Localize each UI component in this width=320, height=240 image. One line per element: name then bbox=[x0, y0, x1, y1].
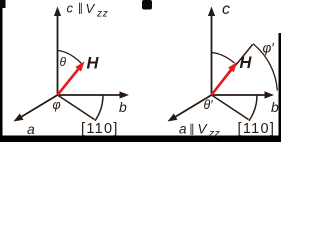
svg-text:H: H bbox=[240, 54, 253, 72]
svg-text:θ: θ bbox=[60, 55, 67, 69]
svg-text:c: c bbox=[67, 1, 74, 16]
svg-text:[110]: [110] bbox=[81, 121, 119, 137]
svg-text:V: V bbox=[86, 1, 96, 16]
svg-text:c: c bbox=[222, 1, 230, 18]
svg-text:zz: zz bbox=[96, 9, 108, 20]
svg-text:V: V bbox=[198, 122, 209, 137]
svg-text:∥: ∥ bbox=[189, 123, 195, 136]
svg-text:a: a bbox=[179, 122, 187, 137]
svg-text:φ′: φ′ bbox=[263, 41, 275, 56]
svg-text:φ: φ bbox=[53, 98, 61, 112]
svg-text:∥: ∥ bbox=[78, 2, 84, 15]
svg-text:b: b bbox=[119, 99, 127, 115]
svg-text:θ′: θ′ bbox=[204, 98, 214, 112]
svg-text:[110]: [110] bbox=[238, 121, 276, 137]
svg-text:b: b bbox=[271, 99, 279, 115]
svg-text:a: a bbox=[27, 121, 35, 137]
svg-text:H: H bbox=[87, 55, 100, 73]
svg-text:zz: zz bbox=[208, 128, 221, 140]
